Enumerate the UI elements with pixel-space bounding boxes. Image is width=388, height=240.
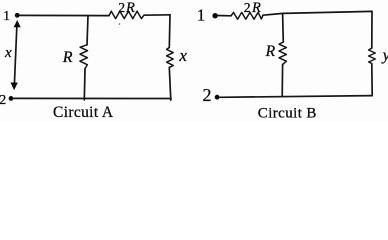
node 2 terminal dot (Circuit A): [9, 96, 14, 101]
svg-text:Circuit A: Circuit A: [53, 104, 114, 121]
svg-text:2R: 2R: [244, 0, 261, 16]
svg-text:1: 1: [197, 6, 206, 25]
svg-text:2: 2: [203, 85, 212, 105]
wire: Circuit A middle branch lower segment: [83, 69, 86, 100]
wire: Circuit B top, resistor 2R to right corner: [263, 11, 372, 15]
wire: Circuit B middle branch upper segment: [282, 13, 285, 42]
resistor R (Circuit A middle branch): [80, 45, 88, 69]
scan speck: [119, 23, 121, 25]
svg-text:y: y: [381, 47, 388, 64]
node 1 terminal dot (Circuit B): [212, 13, 217, 18]
svg-text:Circuit B: Circuit B: [258, 105, 317, 121]
resistor y (Circuit B right branch): [369, 48, 376, 64]
resistor x (Circuit A right branch): [167, 48, 174, 68]
resistor R (Circuit B middle branch): [279, 42, 286, 65]
wire: Circuit B right branch upper segment: [371, 11, 373, 48]
wire: Circuit B middle branch lower segment: [281, 65, 283, 97]
wire: Circuit A right branch lower segment: [169, 67, 171, 100]
svg-text:x: x: [4, 45, 12, 61]
resistor 2R (Circuit B): [231, 12, 263, 19]
arrowhead down at node 2 (Circuit A): [11, 83, 18, 91]
arrowhead up at node 1 (Circuit A): [14, 20, 21, 27]
wire: Circuit A middle branch upper segment: [87, 16, 88, 45]
arrow x between terminals 1 and 2 (Circuit A): [14, 25, 17, 84]
svg-text:2: 2: [0, 93, 6, 108]
resistor 2R (Circuit A): [109, 11, 144, 18]
svg-text:x: x: [178, 46, 187, 65]
svg-text:2R: 2R: [118, 0, 135, 16]
svg-text:1: 1: [3, 9, 10, 24]
wire: Circuit B top, node 1 to resistor 2R: [217, 15, 231, 17]
svg-text:R: R: [265, 43, 276, 60]
wire: Circuit A top, node 1 to resistor 2R: [20, 14, 109, 16]
node 1 terminal dot (Circuit A): [15, 13, 20, 18]
wire: Circuit B bottom, node 2 to right corner: [220, 96, 372, 98]
wire: Circuit A right branch upper segment: [168, 15, 171, 48]
wire: Circuit B right branch lower segment: [371, 64, 373, 96]
node 2 terminal dot (Circuit B): [215, 95, 220, 100]
svg-text:R: R: [62, 49, 73, 66]
wire: Circuit A top, resistor 2R to right corner: [144, 14, 170, 16]
wire: Circuit A bottom, node 2 to right corner: [14, 97, 172, 99]
